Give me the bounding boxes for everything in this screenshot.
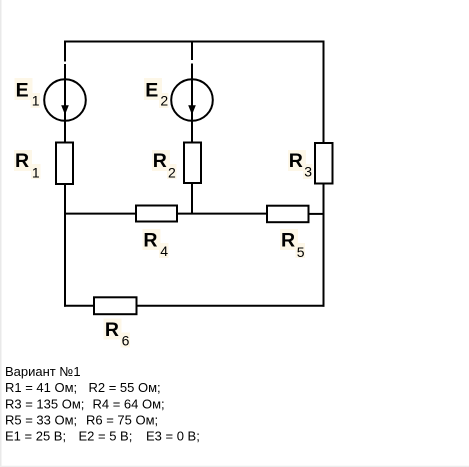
resistor R6 body bbox=[94, 297, 137, 314]
svg-text:R: R bbox=[153, 150, 167, 172]
label highlight R3 bbox=[288, 150, 306, 171]
svg-text:E2 = 5 В;: E2 = 5 В; bbox=[79, 429, 133, 444]
resistor R1 body bbox=[56, 143, 73, 185]
svg-text:R: R bbox=[15, 150, 29, 172]
svg-text:R1 = 41 Ом;: R1 = 41 Ом; bbox=[5, 380, 77, 395]
svg-text:1: 1 bbox=[32, 165, 40, 181]
wire: bottom horizontal right bbox=[137, 305, 325, 307]
arrow of E1 bbox=[61, 105, 69, 115]
resistor R5 body bbox=[267, 206, 309, 223]
svg-text:1: 1 bbox=[32, 93, 40, 109]
label highlight R1 bbox=[14, 150, 32, 171]
source E1 circle bbox=[44, 79, 86, 121]
source E2 circle bbox=[171, 79, 213, 121]
resistor R3 body bbox=[315, 143, 333, 184]
label highlight R6 bbox=[104, 319, 122, 340]
svg-text:E3 = 0 В;: E3 = 0 В; bbox=[146, 429, 200, 444]
svg-text:R: R bbox=[289, 150, 303, 172]
svg-text:R: R bbox=[105, 319, 119, 341]
svg-text:Вариант №1: Вариант №1 bbox=[5, 364, 81, 379]
wire: left vertical upper stub bbox=[64, 41, 66, 62]
wire: middle vertical lower bbox=[191, 183, 193, 215]
svg-text:E1 = 25 В;: E1 = 25 В; bbox=[5, 429, 66, 444]
svg-text:5: 5 bbox=[297, 244, 305, 260]
label highlight E2 bbox=[144, 78, 162, 100]
svg-text:2: 2 bbox=[168, 165, 176, 181]
wire: middle vertical upper stub bbox=[191, 41, 193, 61]
svg-text:R2 = 55 Ом;: R2 = 55 Ом; bbox=[89, 380, 161, 395]
svg-text:R6 = 75 Ом;: R6 = 75 Ом; bbox=[86, 412, 158, 427]
wire: right vertical lower bbox=[323, 184, 325, 307]
wire: right vertical upper bbox=[323, 41, 325, 144]
bottom page edge bbox=[0, 466, 469, 467]
label highlight R2 bbox=[152, 150, 170, 171]
resistor R2 body bbox=[184, 143, 201, 184]
arrow of E2 bbox=[188, 105, 196, 115]
svg-text:4: 4 bbox=[160, 243, 168, 259]
wire: middle vertical through E2 bbox=[191, 64, 193, 143]
wire: left vertical through E1 bbox=[64, 64, 66, 143]
label highlight E1 bbox=[15, 78, 33, 100]
svg-text:E: E bbox=[145, 79, 158, 101]
svg-text:R4 = 64 Ом;: R4 = 64 Ом; bbox=[93, 396, 165, 411]
wire: middle horizontal right bbox=[309, 213, 325, 215]
svg-text:R: R bbox=[143, 229, 157, 251]
svg-text:3: 3 bbox=[304, 164, 312, 180]
wire: bottom horizontal left bbox=[64, 305, 94, 307]
svg-text:R3 = 135 Ом;: R3 = 135 Ом; bbox=[5, 396, 84, 411]
svg-text:E: E bbox=[16, 79, 29, 101]
left page edge bbox=[0, 0, 2, 467]
resistor R4 body bbox=[136, 206, 177, 222]
wire: middle horizontal center bbox=[177, 213, 267, 215]
svg-text:R5 = 33 Ом;: R5 = 33 Ом; bbox=[5, 412, 77, 427]
wire: left vertical lower bbox=[64, 184, 66, 307]
svg-text:R: R bbox=[281, 229, 295, 251]
wire: top horizontal bbox=[64, 41, 325, 43]
wire: middle horizontal left bbox=[64, 213, 136, 215]
svg-text:6: 6 bbox=[122, 332, 130, 348]
label highlight R5 bbox=[280, 229, 298, 250]
label highlight R4 bbox=[143, 229, 161, 250]
svg-text:2: 2 bbox=[160, 93, 168, 109]
